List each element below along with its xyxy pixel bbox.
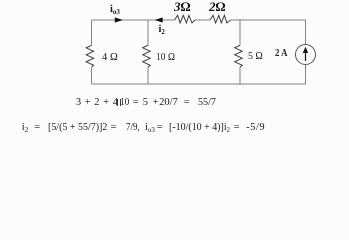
wire top-right segment — [231, 19, 306, 21]
wire 5ohm branch upper — [239, 20, 241, 45]
wire middle branch upper — [147, 20, 149, 45]
label 2 ohm — [209, 0, 226, 13]
label 4 ohm — [102, 53, 118, 64]
wire between 3ohm and 2ohm — [195, 19, 210, 21]
label i2 — [159, 25, 165, 36]
wire left branch lower — [91, 67, 93, 84]
resistor R 4ohm — [86, 45, 94, 67]
wire left branch upper — [91, 20, 93, 45]
current source 2A circle — [296, 45, 316, 65]
label 3 ohm — [174, 0, 191, 13]
equation line 1 — [76, 98, 118, 109]
resistor R 5ohm — [235, 45, 243, 67]
arrow io3 on top wire — [115, 17, 123, 22]
label 2 A — [275, 49, 288, 60]
resistor R 2ohm — [210, 15, 231, 23]
resistor R 10ohm — [143, 45, 151, 67]
label io3 — [110, 5, 120, 16]
equation line 2 — [22, 123, 28, 134]
wire right branch upper — [305, 20, 307, 45]
wire bottom — [92, 83, 306, 85]
arrow i2 on top wire — [155, 17, 163, 22]
label 10 ohm — [156, 53, 175, 64]
wire right branch lower — [305, 65, 307, 85]
current source arrow — [305, 51, 307, 61]
resistor R 3ohm — [175, 15, 196, 23]
wire middle branch lower — [147, 67, 149, 84]
label 5 ohm — [248, 52, 263, 63]
wire top-left segment — [92, 19, 175, 21]
wire 5ohm branch lower — [239, 67, 241, 84]
